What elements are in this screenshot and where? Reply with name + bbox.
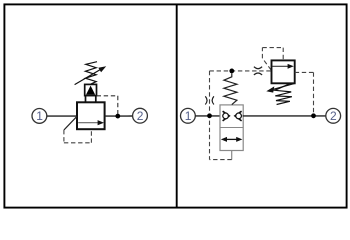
- port 2 label circle: [133, 108, 148, 123]
- panel divider: [176, 4, 178, 207]
- junction dot spring top: [229, 69, 234, 74]
- drain diagonal from body lower-left: [64, 116, 77, 130]
- top pilot dashed horizontal: [210, 70, 272, 72]
- junction dot port1 wire: [207, 113, 212, 118]
- pilot output dashed horizontal: [295, 71, 314, 73]
- pilot flow arrow: [273, 64, 294, 69]
- port 1 label circle: [181, 108, 196, 123]
- port 1 label circle: [32, 109, 47, 124]
- drain dashed bottom to pilot line: [210, 159, 232, 161]
- svg-text:1: 1: [185, 109, 192, 123]
- flow arrow inside body: [78, 120, 104, 125]
- drain dashed loop right vertical up to body: [90, 129, 92, 143]
- pilot adjustment arrow: [266, 83, 294, 92]
- left seat chevron: [223, 111, 230, 121]
- pilot valve box: [272, 60, 295, 83]
- main valve block: [220, 105, 243, 151]
- port 2 label circle: [326, 108, 341, 123]
- poppet box: [85, 84, 97, 102]
- pilot dashed line from poppet box (horizontal): [97, 95, 118, 97]
- vent dashed top: [262, 47, 283, 49]
- double-headed arrow in lower square: [221, 137, 243, 142]
- pilot spring S3: [275, 84, 292, 105]
- pilot dashed vertical line at x210: [209, 71, 211, 160]
- drain dashed loop bottom: [64, 142, 92, 144]
- spring S1: [85, 62, 97, 84]
- right ball: [236, 113, 242, 119]
- poppet triangle: [86, 86, 95, 95]
- svg-text:2: 2: [137, 109, 144, 123]
- svg-text:2: 2: [330, 109, 337, 123]
- vent dashed right vertical to pilot box top: [282, 48, 284, 61]
- wire body to port2: [105, 115, 133, 117]
- valve body B1: [77, 102, 105, 129]
- right seat chevron: [235, 111, 242, 121]
- svg-text:1: 1: [36, 109, 43, 123]
- drain dashed loop left vertical: [63, 130, 65, 143]
- wire main valve to port2: [243, 115, 326, 117]
- adjustment arrow through spring: [75, 66, 107, 84]
- drain stub below block: [231, 151, 233, 160]
- left ball: [223, 113, 229, 119]
- orifice on vertical pilot line: [205, 96, 214, 104]
- pilot output dashed vertical: [313, 72, 315, 114]
- orifice on horizontal pilot line: [254, 67, 262, 75]
- main spring S2: [224, 73, 237, 104]
- wire port1 to valve body: [47, 115, 77, 117]
- vent dashed diagonal: [262, 58, 271, 70]
- junction dot port2 wire: [311, 113, 316, 118]
- pilot dashed line down to port2 wire: [117, 96, 119, 114]
- junction dot on port2 wire: [115, 114, 120, 119]
- wire port1 to main valve: [195, 115, 222, 117]
- vent dashed left vertical: [261, 48, 263, 59]
